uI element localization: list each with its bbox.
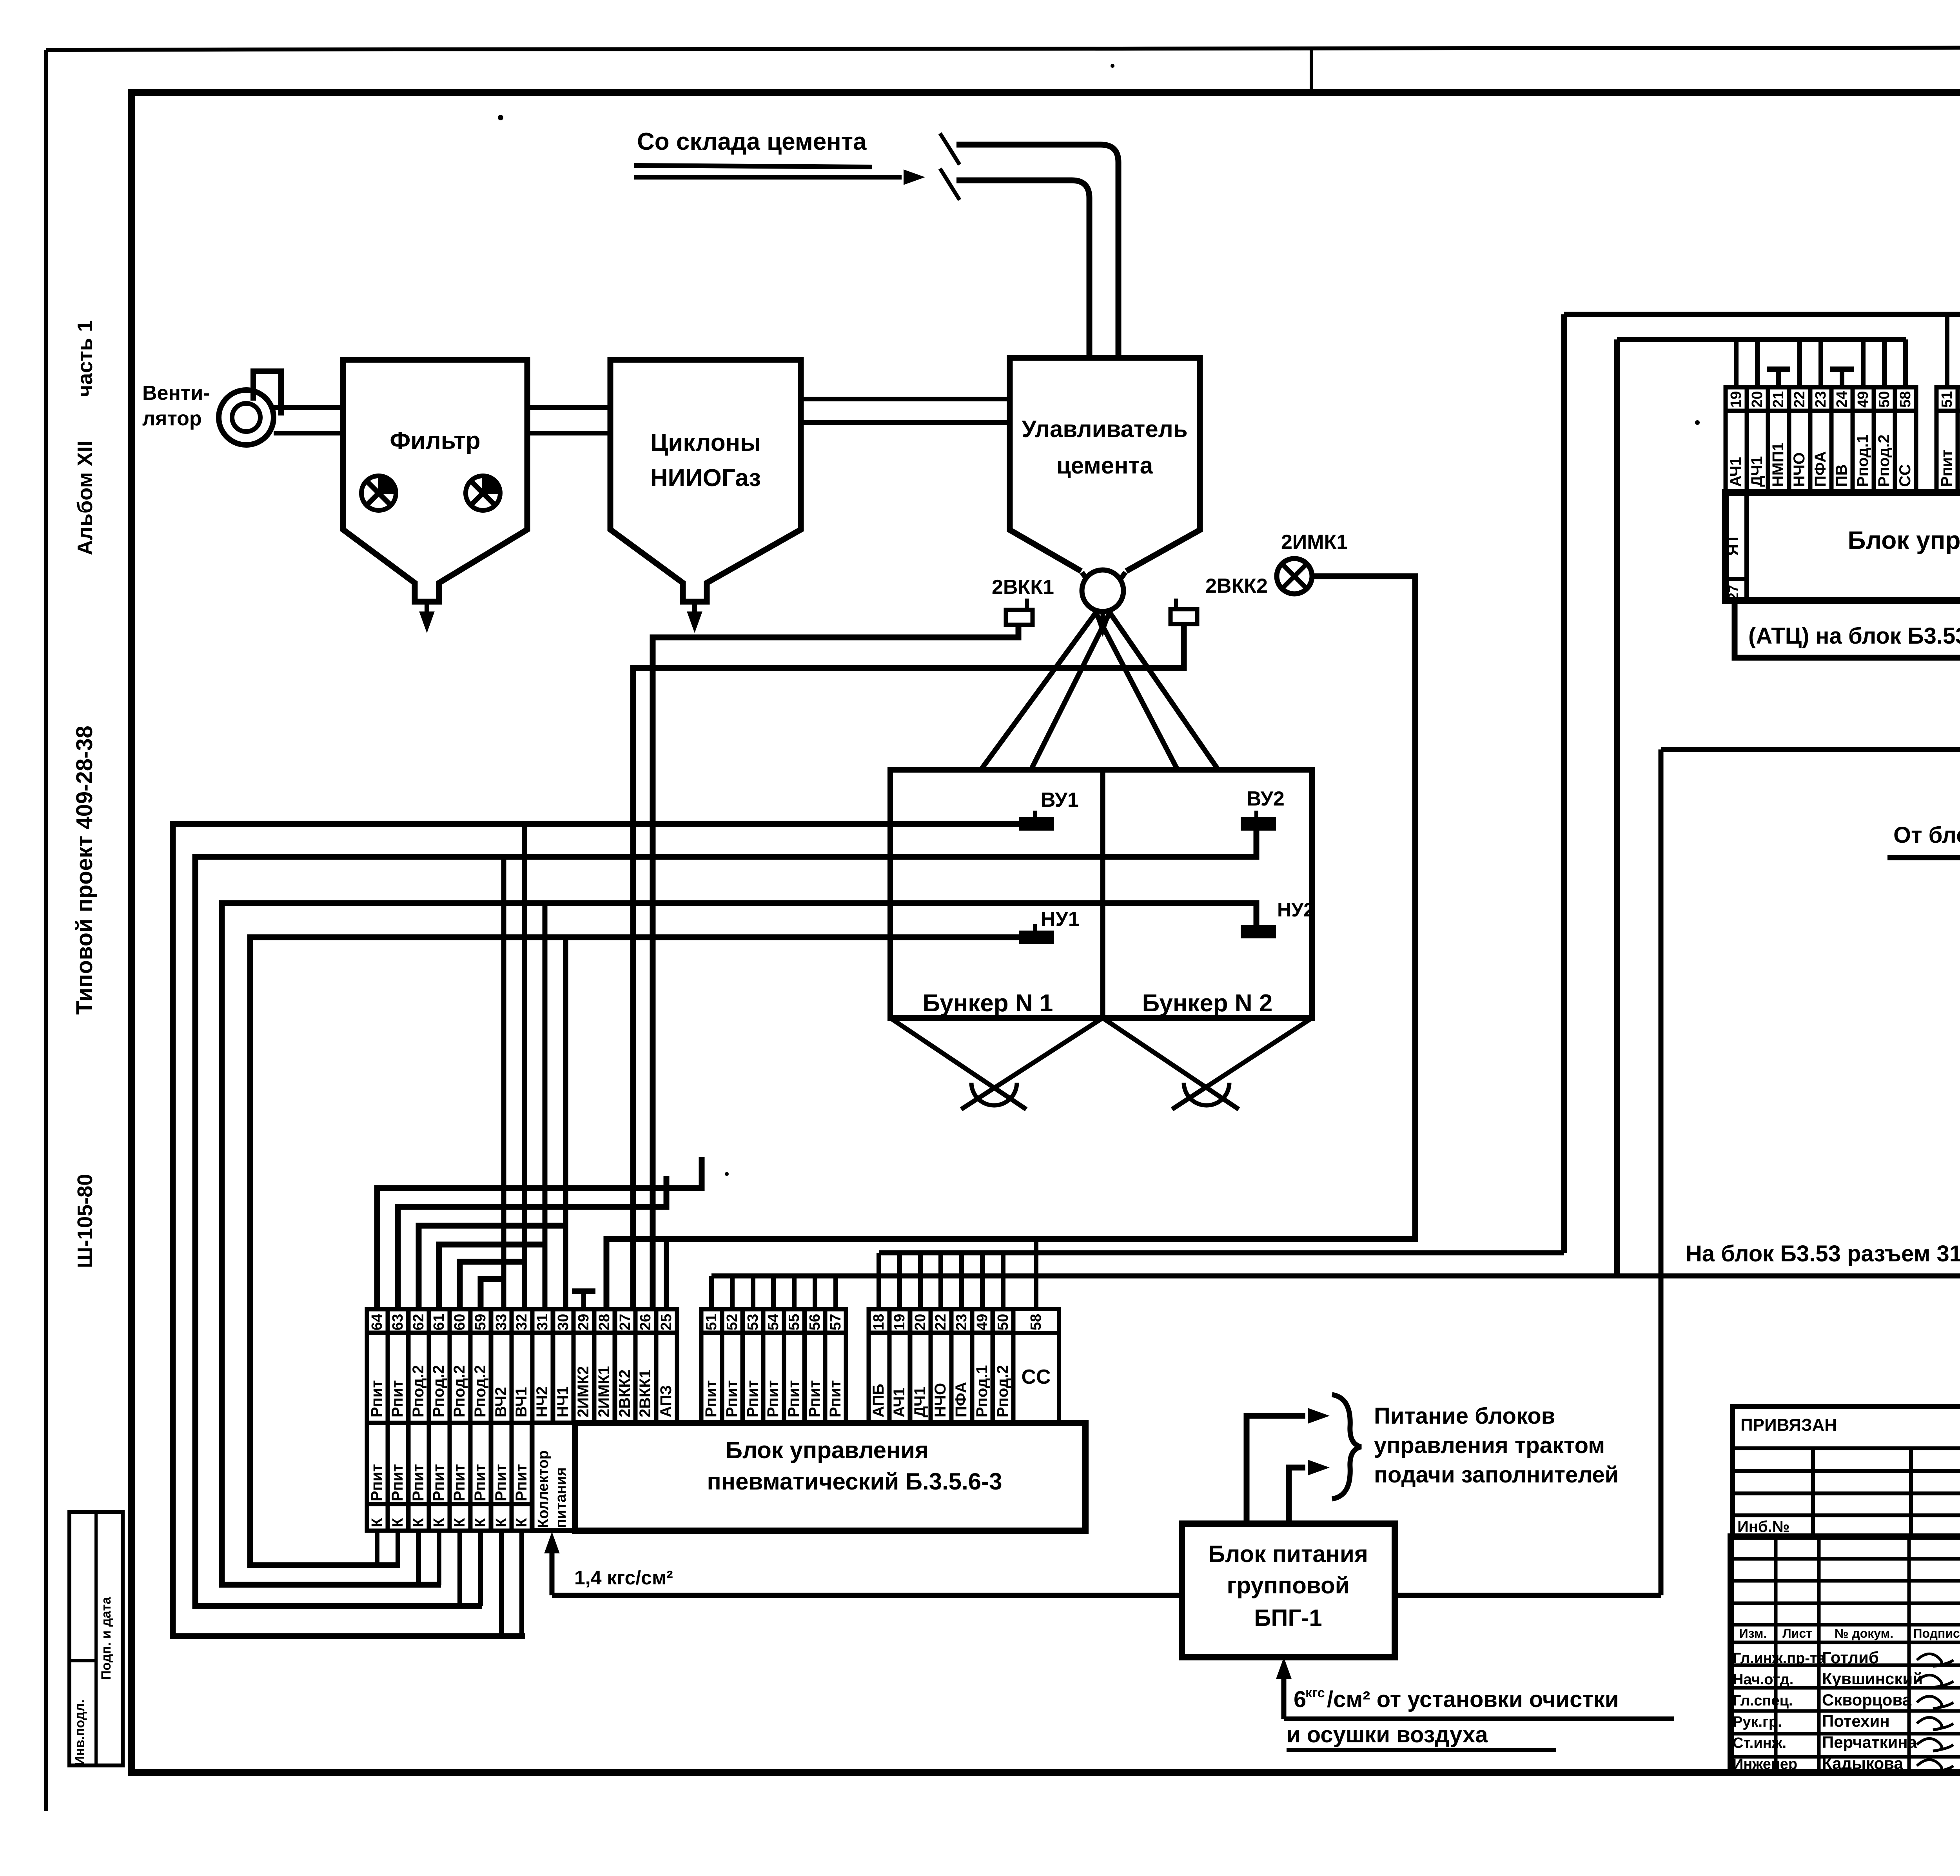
svg-text:Улавливатель: Улавливатель [1022,416,1187,442]
pin 20 ДЧ1 [1747,387,1768,411]
svg-text:Кувшинский: Кувшинский [1822,1669,1923,1688]
wire СС pin from 2ИМК1 line [1034,1239,1038,1309]
svg-text:58: 58 [1897,391,1914,408]
svg-text:Подп. и дата: Подп. и дата [99,1597,114,1680]
pin 26 2ВКК1 [635,1309,656,1333]
vent on pin 2ИМК2 [581,1291,586,1309]
svg-text:Подпись: Подпись [1913,1626,1960,1640]
svg-text:ПФА: ПФА [953,1382,970,1417]
sensor symbol НУ2 [1242,926,1275,937]
pin 24 ПВ [1831,387,1853,411]
pin 50 Рпод.2 [1874,387,1895,411]
bunker 1 discharge [890,1018,1026,1109]
pin 63 Рпит [388,1309,408,1333]
pin 52 Рпит [1958,387,1960,411]
svg-text:Ш-105-80: Ш-105-80 [73,1174,97,1268]
wire 1,4 кгс/см2 input to collector of Б3.56-3 [552,1593,1182,1598]
svg-text:и осушки воздуха: и осушки воздуха [1287,1722,1488,1747]
wire bracket to pin 61 [439,1245,545,1309]
svg-text:Блок управления пневматическ: Блок управления пневматический [1847,526,1960,554]
svg-text:58: 58 [1028,1314,1044,1330]
wire stub АПЗ [664,1239,669,1309]
svg-text:2ИМК2: 2ИМК2 [575,1366,592,1417]
pin 31 НЧ2 [532,1309,553,1333]
pin 21 НМП1 [1768,387,1789,411]
wire bus2 down [1614,339,1620,1276]
svg-text:К: К [369,1518,385,1527]
wires group C pins from H line y3196 [877,1253,881,1309]
wire НУ2 line [222,903,1256,1585]
pin 64 Рпит [367,1309,388,1333]
svg-text:СС: СС [1021,1366,1051,1388]
svg-text:2ИМК1: 2ИМК1 [595,1366,613,1417]
wire bracket to pin 60 [460,1262,524,1309]
svg-text:ВУ1: ВУ1 [1041,789,1079,811]
svg-text:Рпод.2: Рпод.2 [994,1365,1011,1418]
bunker 2 discharge [1103,1018,1239,1109]
svg-text:НИИОГаз: НИИОГаз [650,464,761,492]
arrow to pipe [634,175,902,180]
pin 59 Рпод.2 [470,1309,491,1333]
svg-text:19: 19 [891,1314,908,1330]
wire bracket to pin 64 [377,1157,702,1309]
pin 29 2ИМК2 [573,1309,594,1333]
svg-text:2ВКК2: 2ВКК2 [616,1370,633,1417]
svg-text:1,4 кгс/см²: 1,4 кгс/см² [574,1567,673,1589]
svg-text:24: 24 [1834,391,1850,408]
pin 23 ПФА [951,1309,972,1333]
pin 58 СС [1895,387,1916,411]
svg-text:(АТЦ) на блок Б3.53 разъем: (АТЦ) на блок Б3.53 разъем 310 штуцер 4 [1748,623,1960,649]
stamp small table привязан [1733,1406,1960,1537]
wire от блока штуцер 2 [1887,855,1960,860]
svg-text:НЧО: НЧО [1791,452,1808,487]
svg-text:ПФА: ПФА [1812,451,1829,487]
wires К pins to collector lines [375,1531,379,1565]
wire ВУ2 line [195,829,1256,1606]
svg-text:25: 25 [658,1314,675,1330]
svg-text:НУ1: НУ1 [1041,908,1080,931]
pipe break mark [940,133,960,165]
svg-text:Скворцова: Скворцова [1822,1691,1912,1709]
sensor symbol НУ1 [1020,932,1053,943]
wire bus1 down [1561,314,1567,1253]
pin 54 Рпит [763,1309,784,1333]
svg-text:54: 54 [765,1314,782,1330]
svg-text:Фильтр: Фильтр [390,427,480,454]
wire bus1 (upper) feeding pins 51-57 [1564,312,1960,317]
svg-text:Рпит: Рпит [1938,450,1955,487]
wire vertical junction 4237 [1659,749,1664,1595]
pin column Рпит/К 5 [450,1423,470,1504]
cement catcher Улавливатель цемента [1010,358,1200,571]
svg-text:56: 56 [807,1314,823,1330]
svg-text:АЧ1: АЧ1 [891,1388,908,1417]
pipe filter to cyclones [527,405,610,410]
pipe fan to filter [272,405,343,410]
pin ЯТ cell [1744,492,1749,601]
svg-text:Рпод.2: Рпод.2 [1875,435,1893,487]
svg-text:НЧ2: НЧ2 [534,1386,551,1417]
svg-text:СС: СС [1896,464,1914,487]
svg-text:21: 21 [1770,391,1787,408]
svg-text:22: 22 [1791,391,1808,408]
wire bracket to pin 59 [481,1279,504,1309]
svg-text:Инженер: Инженер [1733,1756,1797,1773]
filter hopper Фильтр [343,360,527,602]
svg-text:НМП1: НМП1 [1769,443,1787,487]
pipe cyclones to catcher [801,397,1010,401]
wire feed arrows to aggregate blocks [1247,1416,1305,1524]
wire 6 кгс/см2 input [1281,1676,1287,1719]
pin 19 АЧ1 [1726,387,1747,411]
pin 30 НЧ1 [553,1309,573,1333]
svg-text:Рпит: Рпит [368,1464,385,1501]
svg-text:управления трактом: управления трактом [1374,1433,1605,1458]
outer sheet border [46,47,1960,50]
catcher discharge arrow [1101,612,1105,623]
filter valve symbol 2 [466,476,500,510]
brace [1332,1395,1361,1499]
cyclones discharge arrow [692,602,697,619]
chute catcher to bunker 2 (left-to-right) [1082,572,1218,770]
svg-text:Типовой проект 409-28-38: Типовой проект 409-28-38 [72,726,97,1015]
filter valve symbol 1 [361,476,396,510]
svg-text:30: 30 [555,1314,572,1330]
sensor symbol ВУ1 [1020,818,1053,829]
svg-text:Блок управления: Блок управления [726,1437,929,1463]
pin 60 Рпод.2 [450,1309,470,1333]
svg-text:61: 61 [431,1314,447,1330]
wire branch to НЧ2 [543,903,548,1309]
svg-text:К: К [493,1518,510,1527]
pin 33 ВЧ2 [491,1309,512,1333]
svg-text:Рпит: Рпит [492,1464,510,1501]
svg-text:60: 60 [452,1314,468,1330]
wire 2ВКК1 [653,625,1018,1309]
svg-text:50: 50 [1876,391,1893,408]
svg-text:20: 20 [912,1314,929,1330]
svg-text:Рпит: Рпит [785,1380,802,1417]
pin 49 Рпод.1 [972,1309,993,1333]
pin column Рпит/К 4 [429,1423,450,1504]
svg-text:2ИМК1: 2ИМК1 [1281,531,1348,553]
lamp symbol 2ИМК1 [1277,559,1312,594]
bunkers box [890,770,1312,1018]
catcher distributor circle [1082,570,1123,611]
svg-text:19: 19 [1728,391,1744,408]
wire branch to ВЧ1 [522,824,527,1309]
svg-text:Гл.спец.: Гл.спец. [1733,1693,1793,1709]
title block main [1731,1537,1960,1773]
sensor symbol ВУ2 [1242,818,1275,829]
pin column Рпит/К 8 [512,1423,532,1504]
wire pin 27 to штуцер 4 [1735,601,1960,658]
pin 61 Рпод.2 [429,1309,450,1333]
svg-text:Потехин: Потехин [1822,1712,1890,1730]
svg-text:49: 49 [1855,391,1871,408]
svg-text:Рпод.2: Рпод.2 [472,1365,489,1418]
svg-text:питания: питания [553,1467,569,1528]
pin 58 СС [1013,1309,1059,1333]
svg-text:Кадыкова: Кадыкова [1822,1754,1903,1773]
svg-text:НЧ1: НЧ1 [554,1386,572,1417]
svg-text:33: 33 [493,1314,510,1330]
svg-text:АЧ1: АЧ1 [1727,457,1744,487]
svg-text:Рпит: Рпит [764,1380,782,1417]
pin column Рпит/К 3 [408,1423,429,1504]
svg-text:Рпод.1: Рпод.1 [1854,435,1871,487]
svg-text:НЧО: НЧО [932,1383,949,1417]
svg-text:/см² от установки очистки: /см² от установки очистки [1327,1687,1619,1712]
svg-text:Инв.подл.: Инв.подл. [73,1700,87,1766]
svg-text:Рпод.2: Рпод.2 [410,1365,427,1418]
svg-text:2ВКК1: 2ВКК1 [992,576,1054,599]
pin column Рпит/К 2 [388,1423,408,1504]
wire bracket to pin 63 [398,1176,666,1309]
svg-text:пневматический Б.3.5.6-3: пневматический Б.3.5.6-3 [707,1468,1002,1495]
svg-text:31: 31 [534,1314,551,1330]
svg-text:51: 51 [703,1314,720,1330]
wire bus2 (lower) feeding group1 pins [1617,337,1906,342]
filter discharge arrow [425,602,429,619]
power supply block БПГ-1 [1182,1524,1395,1657]
wire 2ИМК1 [606,576,1415,1309]
svg-text:ВЧ2: ВЧ2 [492,1387,510,1417]
svg-text:К: К [514,1518,530,1527]
svg-text:Блок питания: Блок питания [1208,1541,1368,1567]
wire ВУ1 line [173,824,1020,1636]
svg-text:Гл.инж.пр-та: Гл.инж.пр-та [1733,1650,1826,1667]
svg-text:ПВ: ПВ [1833,464,1850,487]
pin 53 Рпит [742,1309,763,1333]
svg-text:Питание блоков: Питание блоков [1374,1403,1555,1429]
svg-text:подачи заполнителей: подачи заполнителей [1374,1462,1619,1488]
control block Б3.56-1 [1726,492,1960,601]
wire branch to НЧ1 [563,937,568,1309]
svg-text:Рпит: Рпит [368,1380,385,1417]
svg-text:Готлиб: Готлиб [1822,1648,1879,1667]
svg-text:№ докум.: № докум. [1835,1626,1893,1640]
svg-text:2ВКК1: 2ВКК1 [637,1370,654,1417]
svg-text:23: 23 [953,1314,970,1330]
svg-text:63: 63 [390,1314,406,1330]
pin column Рпит/К 7 [491,1423,512,1504]
svg-text:АПЗ: АПЗ [657,1385,675,1417]
pin 18 АПБ [869,1309,889,1333]
fan symbol [219,390,274,445]
svg-text:64: 64 [369,1314,385,1330]
svg-text:цемента: цемента [1056,452,1153,479]
pin 49 Рпод.1 [1853,387,1874,411]
collector cell Коллектор питания (Б3.56-3) [532,1423,575,1531]
svg-text:29: 29 [575,1314,592,1330]
svg-text:Рпит: Рпит [827,1380,844,1417]
wire branch to ВЧ2 [501,857,506,1309]
control block Б3.56-3 [575,1423,1085,1531]
svg-text:БПГ-1: БПГ-1 [1254,1605,1322,1631]
pin 62 Рпод.2 [408,1309,429,1333]
svg-text:57: 57 [828,1314,844,1330]
vent on pin 24 [1840,369,1844,387]
svg-text:Инб.№: Инб.№ [1737,1518,1789,1535]
svg-text:часть 1: часть 1 [73,320,97,397]
svg-text:кгс: кгс [1305,1685,1325,1700]
svg-text:Рпит: Рпит [513,1464,530,1501]
pin 51 Рпит [701,1309,722,1333]
svg-text:ДЧ1: ДЧ1 [911,1387,929,1417]
svg-text:Рпод.1: Рпод.1 [973,1365,991,1418]
svg-text:23: 23 [1813,391,1829,408]
svg-text:2ВКК2: 2ВКК2 [1205,575,1268,597]
svg-text:Рпит: Рпит [723,1380,740,1417]
svg-text:Рпит: Рпит [410,1464,427,1501]
pin 25 АПЗ [656,1309,677,1333]
svg-text:Коллектор: Коллектор [535,1450,552,1528]
wire БПГ-1 to штуцер Б riser [1395,1593,1661,1598]
pin 27 2ВКК2 [615,1309,635,1333]
top margin band divider tick [1310,49,1313,93]
pin 32 ВЧ1 [512,1309,532,1333]
wire bracket to pin 62 [419,1226,566,1309]
wire 2ВКК2 [633,624,1184,1309]
svg-text:На блок Б3.53 разъем 310 шт: На блок Б3.53 разъем 310 штуцер Б [1686,1241,1960,1266]
pin 57 Рпит [825,1309,846,1333]
left margin stamp table [69,1512,123,1765]
svg-text:Бункер N 2: Бункер N 2 [1142,990,1273,1017]
svg-text:26: 26 [637,1314,654,1330]
svg-text:Венти-: Венти- [142,382,210,405]
svg-text:Рук.гр.: Рук.гр. [1733,1714,1782,1730]
svg-text:ЯТ: ЯТ [1723,534,1742,556]
bunker divider [1100,770,1105,1018]
svg-text:20: 20 [1749,391,1766,408]
svg-text:Рпит: Рпит [744,1380,761,1417]
wire 1,4 кгс/см2 to collector [1661,747,1960,752]
pin 22 НЧО [931,1309,951,1333]
svg-text:Лист: Лист [1782,1626,1812,1640]
svg-text:От блока Б3.53 разъем 310 ш: От блока Б3.53 разъем 310 штуцер 2 [1893,822,1960,848]
pin 55 Рпит [784,1309,805,1333]
svg-text:Рпод.2: Рпод.2 [430,1365,447,1418]
svg-text:55: 55 [786,1314,802,1330]
svg-text:Рпит: Рпит [806,1380,823,1417]
svg-text:К: К [472,1518,489,1527]
svg-text:32: 32 [514,1314,530,1330]
pin column Рпит/К 6 [470,1423,491,1504]
svg-text:НУ2: НУ2 [1277,899,1314,921]
svg-text:К: К [431,1518,447,1527]
svg-text:Рпит: Рпит [389,1380,406,1417]
svg-text:лятор: лятор [142,407,202,430]
pin column Рпит/К 1 [367,1423,388,1504]
pin 22 НЧО [1789,387,1810,411]
pipe from cement store (double line) [956,145,1118,358]
svg-text:Перчаткина: Перчаткина [1822,1733,1917,1751]
pin 19 АЧ1 [889,1309,910,1333]
svg-text:Ст.инж.: Ст.инж. [1733,1735,1786,1751]
svg-text:59: 59 [472,1314,489,1330]
svg-text:Бункер N 1: Бункер N 1 [923,990,1053,1017]
svg-text:групповой: групповой [1227,1572,1350,1598]
svg-text:49: 49 [974,1314,991,1330]
svg-text:ПРИВЯЗАН: ПРИВЯЗАН [1740,1415,1837,1435]
wire НУ1 line [250,937,1020,1565]
svg-text:50: 50 [995,1314,1011,1330]
svg-text:Циклоны: Циклоны [650,429,761,456]
svg-text:Рпит: Рпит [472,1464,489,1501]
svg-text:Рпод.2: Рпод.2 [451,1365,468,1418]
svg-text:ДЧ1: ДЧ1 [1748,456,1766,487]
svg-text:52: 52 [724,1314,740,1330]
svg-text:К: К [390,1518,406,1527]
svg-text:27: 27 [617,1314,633,1330]
svg-text:Альбом XII: Альбом XII [73,440,97,555]
svg-text:К: К [410,1518,427,1527]
cyclones hopper Циклоны НИИОГаз [610,360,801,602]
svg-text:18: 18 [871,1314,887,1330]
svg-text:Рпит: Рпит [451,1464,468,1501]
svg-text:51: 51 [1939,391,1955,408]
pin 28 2ИМК1 [594,1309,615,1333]
pin 23 ПФА [1810,387,1831,411]
svg-text:Рпит: Рпит [430,1464,447,1501]
svg-text:Рпит: Рпит [389,1464,406,1501]
wire H line штуцер Б [711,1274,1960,1279]
svg-text:ВУ2: ВУ2 [1247,787,1285,810]
svg-text:53: 53 [745,1314,761,1330]
pin 56 Рпит [804,1309,825,1333]
pin 50 Рпод.2 [993,1309,1013,1333]
pin 51 Рпит [1936,387,1958,411]
svg-text:Нач.отд.: Нач.отд. [1733,1671,1793,1688]
svg-text:АПБ: АПБ [870,1384,887,1417]
svg-text:Рпит: Рпит [702,1380,720,1417]
svg-text:22: 22 [933,1314,949,1330]
svg-text:28: 28 [596,1314,613,1330]
svg-text:62: 62 [410,1314,427,1330]
chute catcher to bunker 1 (right-to-left) [981,572,1125,770]
wire H line to СС group [879,1250,1564,1256]
svg-text:К: К [452,1518,468,1527]
svg-text:Со склада цемента: Со склада цемента [637,128,867,155]
pin 52 Рпит [722,1309,743,1333]
svg-text:ВЧ1: ВЧ1 [513,1387,530,1417]
vent on pin 21 [1776,369,1781,387]
svg-text:Изм.: Изм. [1739,1626,1767,1640]
svg-text:6: 6 [1294,1687,1306,1712]
pin 20 ДЧ1 [910,1309,931,1333]
wires pins 51-57 from line штуцер Б [709,1276,714,1309]
svg-text:27: 27 [1725,585,1741,601]
